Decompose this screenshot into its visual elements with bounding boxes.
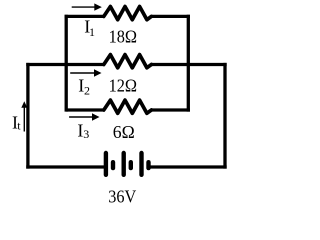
wire: inner-left vertical (junction of R1/R3 branches) <box>65 15 68 112</box>
svg-text:3: 3 <box>83 127 89 141</box>
battery B1 36V : cell 1 long plate <box>104 151 108 177</box>
wire: bottom right segment <box>150 165 226 168</box>
current arrow It (total current, pointing up) <box>21 101 27 131</box>
wire: bottom branch left lead (inner vertical to R3) <box>66 108 104 111</box>
current arrow I2 <box>70 69 101 76</box>
svg-text:12Ω: 12Ω <box>109 75 138 95</box>
resistor R1 18ohm zigzag <box>104 7 152 20</box>
wire: outer-left vertical <box>26 63 29 169</box>
svg-text:2: 2 <box>84 83 90 97</box>
wire: R3 right lead <box>151 108 190 111</box>
current arrow I3 <box>69 113 99 120</box>
wire: R1 right lead <box>151 15 190 18</box>
battery cell 3 short plate <box>146 160 150 170</box>
wire: top branch left lead (node to R1) <box>65 15 104 18</box>
wire: inner-right vertical (R1 to R3) <box>187 15 190 112</box>
svg-text:1: 1 <box>89 25 95 39</box>
svg-text:6Ω: 6Ω <box>113 122 135 142</box>
wire: outer-right vertical <box>223 63 226 169</box>
battery cell 2 long plate <box>122 151 126 177</box>
wire: middle branch left lead (outer-left node to R2) <box>26 63 104 66</box>
current arrow I1 <box>72 3 102 10</box>
battery cell 3 long plate <box>139 151 143 177</box>
wire: bottom left segment <box>26 165 104 168</box>
svg-text:18Ω: 18Ω <box>109 26 138 46</box>
resistor R2 12ohm zigzag <box>104 55 152 68</box>
battery cell 1 short plate <box>111 160 115 170</box>
battery cell 2 short plate <box>129 160 133 170</box>
wire: R2 right lead <box>151 63 226 66</box>
svg-text:36V: 36V <box>108 187 136 207</box>
resistor R3 6ohm zigzag <box>104 100 152 113</box>
